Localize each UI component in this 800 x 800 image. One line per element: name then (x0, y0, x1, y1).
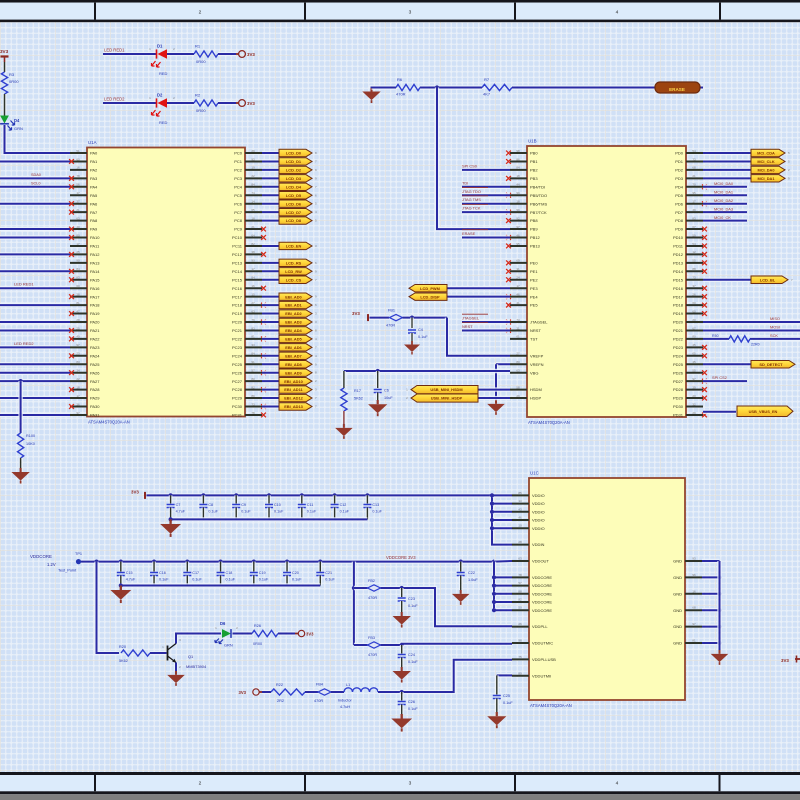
svg-text:3: 3 (409, 781, 412, 787)
port EBI_AD2 (279, 310, 317, 317)
svg-text:5K62: 5K62 (354, 397, 363, 401)
svg-text:R50: R50 (712, 334, 719, 338)
svg-text:PC10: PC10 (232, 235, 243, 240)
net label MCI0_DA1 (714, 189, 733, 194)
wire PC6 to port (262, 201, 280, 205)
svg-text:60: 60 (692, 309, 696, 313)
wire PA6 (0, 201, 70, 205)
net label MCI0_DA3 (714, 206, 733, 211)
svg-text:PD16: PD16 (673, 286, 684, 291)
wire C25 to VDDUTMII (497, 675, 512, 694)
wire PC17 to port (262, 294, 280, 298)
svg-text:PA11: PA11 (90, 244, 100, 249)
svg-text:R22: R22 (276, 683, 283, 687)
svg-text:C21: C21 (325, 571, 332, 575)
net label MOSI (770, 325, 780, 330)
svg-text:USB_MINI_HSDM: USB_MINI_HSDM (430, 387, 462, 392)
svg-text:PC29: PC29 (232, 396, 243, 401)
wire PD21 MOSI (703, 328, 800, 332)
LED D4 (0, 116, 23, 132)
port EBI_AD9 (279, 369, 317, 376)
wire PD5 MCI0_DA1 (703, 193, 747, 197)
capacitor C26 (398, 692, 419, 711)
svg-text:80: 80 (76, 233, 80, 237)
svg-text:C16: C16 (159, 571, 166, 575)
svg-text:43: 43 (518, 507, 522, 511)
ground C22 (452, 576, 470, 605)
svg-text:63: 63 (76, 216, 80, 220)
wire PA21 (0, 328, 70, 332)
svg-text:65: 65 (692, 352, 696, 356)
svg-text:0R00: 0R00 (196, 108, 206, 113)
port LCD_RW (279, 268, 317, 275)
LED D2 (149, 93, 175, 126)
svg-text:PD9: PD9 (675, 227, 684, 232)
svg-text:PC1: PC1 (234, 159, 243, 164)
port MCI_DA1 (751, 175, 790, 182)
svg-text:PC14: PC14 (232, 269, 243, 274)
svg-text:R6: R6 (397, 77, 403, 82)
wire PA26 (0, 371, 70, 375)
svg-text:ATSAM4S70Q20A-AN: ATSAM4S70Q20A-AN (528, 420, 570, 425)
svg-text:PB2: PB2 (530, 168, 538, 173)
svg-text:PD4: PD4 (675, 184, 684, 189)
wire PA4 (0, 185, 70, 189)
svg-text:PC28: PC28 (232, 387, 243, 392)
svg-text:75: 75 (518, 655, 522, 659)
svg-text:97: 97 (692, 622, 696, 626)
svg-text:PA0: PA0 (90, 151, 98, 156)
port USB_VBUS_EN (737, 406, 793, 417)
svg-text:0.1uF: 0.1uF (408, 604, 418, 608)
port LCD_D7 (279, 208, 317, 215)
svg-text:PA22: PA22 (90, 337, 100, 342)
port EBI_AD12 (279, 394, 317, 401)
LED D1 (149, 44, 175, 77)
svg-text:PC3: PC3 (234, 176, 243, 181)
wire U1B JTAG_TDO (462, 193, 510, 197)
svg-text:PD0: PD0 (675, 151, 684, 156)
svg-text:29: 29 (692, 411, 696, 415)
svg-text:32: 32 (692, 402, 696, 406)
svg-text:GND: GND (673, 575, 682, 580)
svg-text:41: 41 (516, 301, 520, 305)
svg-text:JTAGSEL: JTAGSEL (530, 320, 548, 325)
svg-text:16: 16 (251, 284, 255, 288)
wire 3V3 to FB1 (370, 315, 390, 319)
svg-text:PA20: PA20 (90, 320, 100, 325)
wire PD15 to port (703, 278, 752, 282)
svg-text:PD2: PD2 (675, 168, 684, 173)
svg-text:ERASE: ERASE (669, 87, 685, 92)
svg-text:26: 26 (518, 622, 522, 626)
wire U1B LCD_DISP (447, 294, 510, 298)
port EBI_AD13 (279, 403, 317, 410)
svg-text:0.1uF: 0.1uF (340, 510, 350, 514)
svg-text:D2: D2 (157, 93, 163, 98)
wire PA9 (0, 227, 70, 231)
svg-text:67: 67 (692, 326, 696, 330)
wire R100 vertical (18, 381, 22, 433)
svg-text:FB3: FB3 (368, 636, 375, 640)
wire LED_RED1 to D1 (103, 52, 156, 56)
svg-text:C12: C12 (340, 503, 347, 507)
svg-text:RED: RED (159, 120, 168, 125)
capacitor C23 (398, 588, 419, 608)
svg-text:PD12: PD12 (673, 252, 684, 257)
inductor L1 (338, 683, 378, 709)
svg-text:EBI_AD11: EBI_AD11 (284, 387, 303, 392)
svg-text:34: 34 (76, 369, 80, 373)
wire L1 to VDDPLLUSB (378, 660, 512, 694)
svg-text:GND: GND (673, 624, 682, 629)
svg-text:GND: GND (673, 591, 682, 596)
wire PD20 MISO (703, 320, 800, 324)
svg-text:C20: C20 (292, 571, 299, 575)
svg-text:JTAG TDO: JTAG TDO (462, 189, 481, 194)
svg-text:C8: C8 (208, 503, 213, 507)
wire PC22 to port (262, 337, 280, 341)
svg-text:21: 21 (692, 174, 696, 178)
wire R1 to power (218, 52, 236, 56)
svg-text:VDDIO: VDDIO (532, 493, 545, 498)
svg-text:LED RED1: LED RED1 (104, 48, 125, 53)
capacitor C16 (150, 560, 169, 586)
wire PC26 to port (262, 371, 280, 375)
svg-text:PA5: PA5 (90, 193, 98, 198)
ferrite bead FB3 (354, 636, 381, 657)
wire VDDCORE to R20 (97, 562, 120, 653)
port LCD_EN (279, 242, 317, 249)
svg-text:0.1uF: 0.1uF (408, 707, 418, 711)
svg-text:21: 21 (251, 225, 255, 229)
net label JTAG_TMS (462, 196, 488, 202)
ground C26 (391, 705, 412, 732)
svg-text:PA28: PA28 (90, 387, 100, 392)
svg-text:64: 64 (251, 233, 255, 237)
svg-text:PA14: PA14 (90, 269, 100, 274)
wire U1B ERASE (462, 235, 510, 239)
IC U1C body ATSAM4S70Q20A-AN (512, 471, 702, 709)
svg-text:PC21: PC21 (232, 328, 243, 333)
svg-text:2R2: 2R2 (277, 699, 284, 703)
port MCI_CDA (751, 149, 790, 156)
svg-text:97: 97 (76, 411, 80, 415)
wire PC19 to port (262, 311, 280, 315)
svg-text:PA31: PA31 (90, 413, 100, 418)
svg-text:78: 78 (76, 174, 80, 178)
wire PA14 (0, 269, 70, 273)
svg-text:22: 22 (76, 377, 80, 381)
wire PA23 (0, 345, 70, 349)
svg-text:84: 84 (516, 166, 520, 170)
svg-text:C11: C11 (307, 503, 314, 507)
wire FB1 to junction and VREFP (403, 316, 511, 356)
svg-text:97: 97 (692, 377, 696, 381)
svg-text:VDDUTMIC: VDDUTMIC (532, 641, 553, 646)
svg-text:PC22: PC22 (232, 337, 243, 342)
svg-text:VDDPLLUSB: VDDPLLUSB (532, 657, 556, 662)
net label SPI_CS2 (712, 375, 727, 380)
power port 3V3 top-left (0, 49, 9, 63)
port MCI_DA0 (751, 166, 790, 173)
ground C4 (404, 333, 420, 355)
wire C7-C13 bottom rail (169, 517, 368, 521)
svg-text:470R: 470R (314, 699, 323, 703)
wire VDDCORE to FB2 FB3 vertical (352, 562, 356, 645)
svg-text:R100: R100 (26, 434, 35, 438)
capacitor C9 (232, 493, 251, 519)
svg-text:1.2V: 1.2V (47, 562, 56, 567)
wire PC11 to port (262, 244, 280, 248)
svg-text:23: 23 (76, 352, 80, 356)
wire PC23 to port (262, 345, 280, 349)
svg-text:VDDPLL: VDDPLL (532, 624, 548, 629)
port USB_MINI_HSDM (406, 386, 478, 394)
svg-text:TDI: TDI (462, 180, 468, 185)
wire PC5 to port (262, 193, 280, 197)
wire VDDCORE rail (81, 560, 496, 564)
wire PA25 (0, 362, 70, 366)
svg-text:73: 73 (516, 318, 520, 322)
svg-text:91: 91 (251, 360, 255, 364)
no-ERC markers U1B left (506, 151, 511, 333)
svg-text:PE0: PE0 (530, 260, 538, 265)
svg-text:PE5: PE5 (530, 303, 538, 308)
wire PC14 to port (262, 269, 280, 273)
svg-text:84: 84 (251, 276, 255, 280)
port LCD_D6 (279, 200, 317, 207)
svg-text:PA12: PA12 (90, 252, 100, 257)
svg-text:44: 44 (516, 183, 520, 187)
wire PC25 to port (262, 362, 280, 366)
svg-text:31: 31 (516, 326, 520, 330)
svg-text:HSDM: HSDM (530, 387, 542, 392)
IC U1B body ATSAM4S70Q20A-AN (510, 139, 703, 426)
ground VREFN (487, 400, 505, 415)
svg-text:C24: C24 (408, 653, 415, 657)
svg-text:90: 90 (76, 259, 80, 263)
svg-text:92: 92 (516, 216, 520, 220)
svg-text:PC20: PC20 (232, 320, 243, 325)
svg-text:17: 17 (76, 242, 80, 246)
svg-text:SPI CS0: SPI CS0 (462, 163, 478, 168)
svg-text:25: 25 (76, 250, 80, 254)
svg-text:3V3: 3V3 (247, 101, 255, 106)
svg-text:80: 80 (692, 335, 696, 339)
svg-text:PA2: PA2 (90, 168, 98, 173)
svg-text:LCD_D6: LCD_D6 (286, 201, 302, 206)
svg-text:C15: C15 (126, 571, 133, 575)
wire PC3 to port (262, 176, 280, 180)
wire PC15 to port (262, 278, 280, 282)
svg-text:PB8: PB8 (530, 218, 538, 223)
svg-text:MISO: MISO (770, 316, 780, 321)
svg-text:63: 63 (516, 369, 520, 373)
net label JTAG_TDO (462, 187, 488, 193)
capacitor C21 (316, 560, 335, 586)
svg-text:4.7uF: 4.7uF (176, 510, 186, 514)
svg-text:83: 83 (692, 216, 696, 220)
svg-text:PD15: PD15 (673, 277, 684, 282)
svg-text:R7: R7 (484, 77, 490, 82)
svg-text:PA21: PA21 (90, 328, 100, 333)
svg-text:79: 79 (251, 318, 255, 322)
svg-text:37: 37 (692, 284, 696, 288)
svg-text:17: 17 (692, 200, 696, 204)
wire FB2 to VDDPLL (381, 586, 513, 626)
svg-text:PC30: PC30 (232, 404, 243, 409)
svg-text:46: 46 (516, 233, 520, 237)
port MCI_CLK (751, 158, 790, 165)
wire PD31 to port (703, 410, 736, 414)
svg-text:SDA0: SDA0 (31, 173, 41, 177)
svg-text:D4: D4 (14, 118, 20, 123)
wire Q1 collector to D6 (176, 634, 221, 644)
port EBI_AD7 (279, 352, 317, 359)
svg-text:MCI_DA1: MCI_DA1 (757, 176, 775, 181)
ferrite bead FB1 (386, 309, 403, 328)
svg-text:U1B: U1B (528, 139, 537, 144)
wire U1C GND bus (702, 561, 722, 650)
svg-text:PC18: PC18 (232, 303, 243, 308)
wire PA1 (0, 159, 70, 163)
svg-text:PD25: PD25 (673, 362, 684, 367)
net label LED_RED2 (104, 97, 125, 102)
svg-text:MCI0_DA3: MCI0_DA3 (714, 206, 733, 211)
svg-text:PC26: PC26 (232, 370, 243, 375)
svg-text:82: 82 (251, 242, 255, 246)
svg-text:PA25: PA25 (90, 362, 100, 367)
wire PA3 (0, 176, 70, 180)
svg-text:LCD_D2: LCD_D2 (286, 168, 302, 173)
svg-text:TST: TST (530, 337, 538, 342)
svg-text:VDDCORE: VDDCORE (532, 575, 552, 580)
svg-text:0.1uF: 0.1uF (503, 701, 513, 705)
svg-text:PC9: PC9 (234, 227, 243, 232)
svg-text:PB1: PB1 (530, 159, 538, 164)
svg-text:FB1: FB1 (388, 309, 395, 313)
wire D6 to R26 (233, 631, 253, 635)
svg-text:PD7: PD7 (675, 210, 684, 215)
wire PD0 to port (703, 151, 752, 155)
svg-text:PD3: PD3 (675, 176, 684, 181)
svg-text:PD20: PD20 (673, 320, 684, 325)
svg-text:0.1uF: 0.1uF (259, 578, 269, 582)
svg-text:PA18: PA18 (90, 303, 100, 308)
svg-text:470R: 470R (368, 653, 377, 657)
svg-text:PD14: PD14 (673, 269, 684, 274)
svg-text:83: 83 (76, 276, 80, 280)
svg-text:PC5: PC5 (234, 193, 243, 198)
wire PC0 to port (262, 151, 280, 155)
ground C23 (393, 601, 411, 628)
port LCD_CS (279, 276, 317, 283)
wire 3V3 to R3 (3, 62, 7, 72)
resistor R17 (341, 371, 363, 411)
svg-text:0.1uF: 0.1uF (208, 510, 218, 514)
svg-text:PD1: PD1 (675, 159, 684, 164)
wire PD7 MCI0_DA3 (703, 210, 747, 214)
svg-text:73: 73 (692, 276, 696, 280)
svg-text:68: 68 (692, 166, 696, 170)
svg-text:PE3: PE3 (530, 286, 538, 291)
svg-text:29: 29 (251, 149, 255, 153)
svg-text:17: 17 (251, 267, 255, 271)
svg-text:PA3: PA3 (90, 176, 98, 181)
svg-text:3V3: 3V3 (239, 690, 247, 695)
svg-text:EBI_AD8: EBI_AD8 (285, 362, 302, 367)
svg-text:0.1uF: 0.1uF (292, 578, 302, 582)
capacitor C7 (167, 493, 186, 519)
svg-text:68: 68 (692, 606, 696, 610)
svg-text:4: 4 (616, 10, 619, 16)
svg-text:PD8: PD8 (675, 218, 684, 223)
capacitor C4 (408, 318, 428, 339)
svg-text:VDDCORE 3V3: VDDCORE 3V3 (386, 555, 416, 560)
svg-text:C13: C13 (372, 503, 379, 507)
svg-text:MCI_CDA: MCI_CDA (757, 151, 775, 156)
svg-text:19: 19 (251, 166, 255, 170)
svg-text:LCD_PWM: LCD_PWM (420, 286, 440, 291)
svg-text:GND: GND (673, 559, 682, 564)
svg-text:PE2: PE2 (530, 277, 538, 282)
wire PC30 to port (262, 404, 280, 408)
wire U1B USB_MINI_HSDM (478, 387, 510, 391)
svg-text:3V3: 3V3 (0, 49, 9, 54)
svg-text:VDDIO: VDDIO (532, 518, 545, 523)
svg-text:C22: C22 (468, 571, 475, 575)
net label MCI0_DA0 (714, 181, 734, 186)
svg-text:0.1uF: 0.1uF (241, 510, 251, 514)
svg-text:EBI_AD12: EBI_AD12 (284, 396, 303, 401)
svg-text:45: 45 (692, 343, 696, 347)
svg-text:PB12: PB12 (530, 235, 541, 240)
ground C24 (393, 658, 411, 683)
svg-text:88: 88 (518, 589, 522, 593)
net label NRST (462, 323, 488, 329)
svg-text:2: 2 (199, 781, 202, 787)
wire junction to U1B pin PB9 (437, 88, 510, 230)
svg-text:LCD_D0: LCD_D0 (286, 151, 301, 156)
svg-text:82: 82 (251, 385, 255, 389)
svg-text:EBI_AD9: EBI_AD9 (285, 370, 302, 375)
svg-text:PA4: PA4 (90, 184, 98, 189)
svg-text:EBI_AD3: EBI_AD3 (285, 320, 302, 325)
svg-text:86: 86 (516, 157, 520, 161)
wire D2 to R2 (167, 101, 194, 105)
resistor R7 (482, 77, 512, 97)
net label TDI (462, 180, 468, 185)
LED D6 (215, 621, 238, 648)
svg-text:PC23: PC23 (232, 345, 243, 350)
svg-text:Test_Point: Test_Point (58, 568, 77, 573)
wire PA12 (0, 252, 70, 256)
wire U1B SPI_CS0 (462, 168, 510, 172)
svg-text:80: 80 (251, 377, 255, 381)
svg-text:78: 78 (518, 573, 522, 577)
sheet border top band (0, 0, 800, 22)
svg-text:NRST: NRST (530, 328, 541, 333)
svg-text:89: 89 (251, 394, 255, 398)
svg-text:84: 84 (251, 183, 255, 187)
svg-text:TP1: TP1 (75, 552, 82, 556)
svg-text:33: 33 (518, 499, 522, 503)
svg-text:27: 27 (251, 301, 255, 305)
ground R100 (11, 458, 29, 484)
svg-text:49: 49 (692, 208, 696, 212)
svg-text:LCD_BL: LCD_BL (760, 277, 776, 282)
